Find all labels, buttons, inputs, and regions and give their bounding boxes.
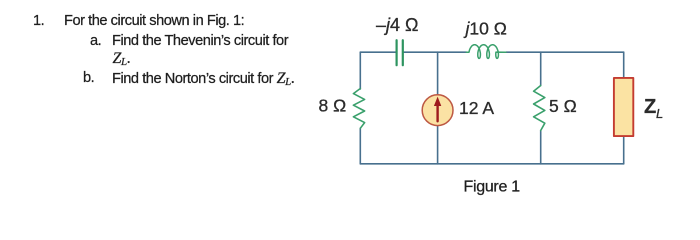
resistor 8 ohm zigzag: [353, 89, 364, 129]
wire top-middle horizontal (capacitor to inductor): [403, 51, 466, 53]
inductor j10 ohm coil: [466, 45, 506, 59]
wire top-left horizontal: [360, 51, 396, 53]
line 1: item 1: [33, 13, 44, 29]
wire top-right horizontal (inductor to right rail): [506, 51, 624, 53]
wire current-source branch top: [437, 52, 439, 94]
line 4: item b: [83, 70, 94, 86]
current source arrow: [436, 105, 438, 122]
wire bottom horizontal: [360, 163, 623, 165]
problem text block: [0, 0, 360, 1]
resistor 5 ohm zigzag: [534, 86, 545, 131]
svg-text:L: L: [656, 106, 663, 121]
svg-text:Z: Z: [644, 96, 656, 118]
svg-text:5 Ω: 5 Ω: [549, 96, 577, 116]
wire left rail top segment: [359, 52, 361, 89]
wire right rail bottom segment: [623, 136, 625, 164]
current source circle 12 A: [422, 95, 453, 126]
svg-text:Figure 1: Figure 1: [464, 179, 521, 196]
capacitor -j4 ohm plates: [397, 40, 403, 65]
wire left rail bottom segment: [359, 128, 361, 164]
load ZL rectangle: [614, 78, 633, 136]
line 2: item a: [90, 33, 101, 49]
svg-text:j10 Ω: j10 Ω: [464, 19, 507, 39]
wire 5-ohm branch top: [540, 52, 542, 85]
wire 5-ohm branch bottom: [540, 131, 542, 164]
wire right rail top segment: [623, 52, 625, 78]
svg-text:8 Ω: 8 Ω: [319, 96, 347, 116]
line 3: ZL: [113, 50, 131, 68]
svg-text:–j4 Ω: –j4 Ω: [376, 15, 418, 35]
svg-text:12 A: 12 A: [459, 98, 494, 118]
wire current-source branch bottom: [437, 126, 439, 164]
